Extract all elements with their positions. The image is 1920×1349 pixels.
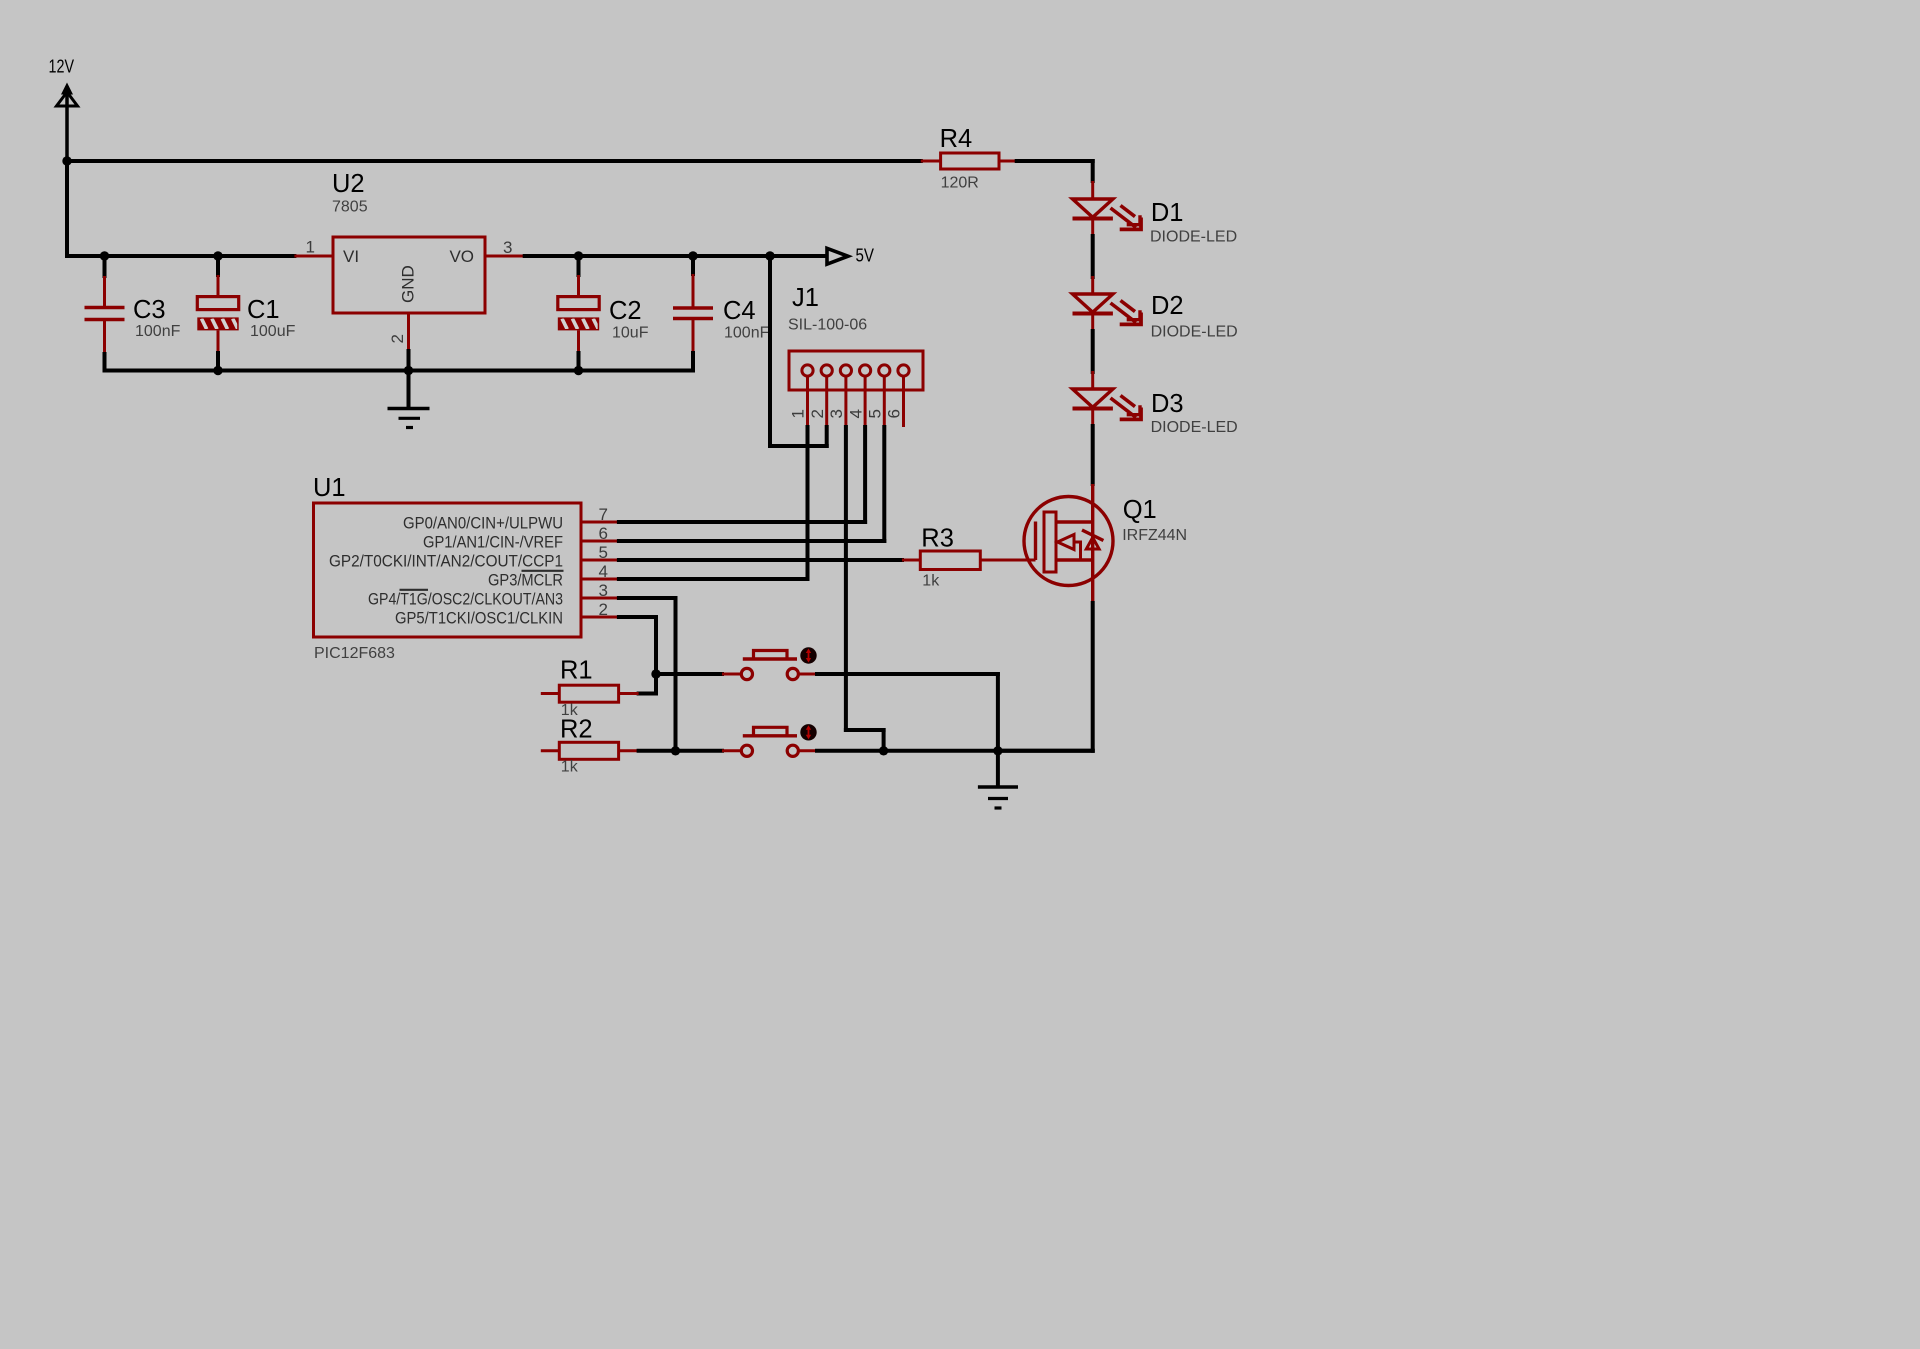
- U2 pin name VI: [343, 247, 359, 266]
- U2 pin number 3: [503, 238, 512, 257]
- label R3: [921, 525, 954, 553]
- resistor R3: [902, 551, 1036, 570]
- wire J1 pin5 to GP1: [882, 427, 886, 541]
- svg-text:GP3/MCLR: GP3/MCLR: [488, 571, 563, 589]
- svg-text:6: 6: [885, 409, 904, 418]
- diode-led D2: [1073, 276, 1142, 331]
- overline MCLR: [522, 570, 564, 572]
- svg-text:U2: U2: [332, 170, 365, 198]
- svg-text:100nF: 100nF: [724, 325, 770, 342]
- diode-led D1: [1073, 181, 1142, 236]
- label U1: [313, 474, 346, 502]
- power flag 12V symbol: [57, 83, 78, 162]
- svg-text:GP1/AN1/CIN-/VREF: GP1/AN1/CIN-/VREF: [423, 533, 563, 551]
- label U2: [332, 170, 365, 198]
- junction C3 top: [100, 251, 109, 260]
- U2 pin 3 stub: [485, 255, 525, 258]
- pushbutton SW2: [741, 724, 816, 756]
- svg-text:5: 5: [866, 409, 885, 418]
- label D3: [1151, 390, 1184, 418]
- wire GP0 to J1 pin4: [619, 520, 865, 524]
- U2 pin name GND: [399, 265, 418, 303]
- ic U1 body: [314, 503, 582, 637]
- transistor Q1 IRFZ44N: [1024, 484, 1113, 603]
- svg-text:Q1: Q1: [1123, 496, 1157, 524]
- J1 pin number 1: [789, 409, 808, 418]
- capacitor C2 (electrolytic): [558, 256, 599, 371]
- J1 pin number 5: [866, 409, 885, 418]
- label R1: [560, 657, 593, 685]
- U1 pin 2 stub: [581, 616, 619, 619]
- wire button2 to ground bus: [798, 749, 1092, 752]
- value PIC12F683: [314, 645, 395, 662]
- wire GP5 down: [619, 617, 656, 694]
- svg-text:GP0/AN0/CIN+/ULPWU: GP0/AN0/CIN+/ULPWU: [403, 514, 563, 532]
- svg-text:DIODE-LED: DIODE-LED: [1151, 419, 1238, 436]
- wire ground bus: [105, 369, 694, 373]
- value DIODE-LED D3: [1151, 419, 1238, 436]
- diode-led D3: [1073, 371, 1142, 426]
- svg-text:1k: 1k: [561, 759, 579, 776]
- resistor R1: [541, 685, 639, 702]
- svg-text:100uF: 100uF: [250, 323, 296, 340]
- svg-text:DIODE-LED: DIODE-LED: [1150, 229, 1237, 246]
- label R4: [940, 125, 973, 153]
- svg-text:C2: C2: [609, 297, 642, 325]
- J1 pin 1 circle: [802, 365, 813, 376]
- U1 pin 5 stub: [581, 559, 619, 562]
- svg-text:GND: GND: [399, 265, 418, 303]
- junction 5V tap: [765, 251, 774, 260]
- U2 pin number 2: [388, 334, 407, 343]
- wire J1 pin4 to GP0: [863, 427, 867, 522]
- J1 pin 3 circle: [840, 365, 851, 376]
- J1 pin 5 circle: [879, 365, 890, 376]
- value 1k R2: [561, 759, 579, 776]
- capacitor C4: [673, 256, 713, 371]
- label D2: [1151, 292, 1184, 320]
- label C2: [609, 297, 642, 325]
- label R2: [560, 716, 593, 744]
- J1 pin number 4: [846, 409, 865, 418]
- svg-text:R2: R2: [560, 716, 593, 744]
- svg-text:R3: R3: [921, 525, 954, 553]
- junction C2 bottom: [574, 366, 583, 375]
- svg-text:4: 4: [846, 409, 865, 418]
- svg-text:2: 2: [808, 409, 827, 418]
- U1 pin 4 stub: [581, 578, 619, 581]
- U1 pin name row 6: [395, 609, 563, 627]
- wire VO rail: [525, 254, 826, 258]
- svg-text:12V: 12V: [49, 57, 75, 77]
- svg-text:C3: C3: [133, 296, 166, 324]
- svg-text:PIC12F683: PIC12F683: [314, 645, 395, 662]
- wire 5V to J1 pin2: [770, 256, 827, 446]
- power arrow 5V: [827, 248, 848, 264]
- svg-text:D3: D3: [1151, 390, 1184, 418]
- label D1: [1151, 199, 1184, 227]
- label Q1: [1123, 496, 1157, 524]
- svg-text:VI: VI: [343, 247, 359, 266]
- resistor R4: [921, 153, 1017, 169]
- junction C2 top: [574, 251, 583, 260]
- svg-text:7805: 7805: [332, 199, 368, 216]
- J1 pin 6 stub: [902, 376, 905, 427]
- junction U2 gnd: [404, 366, 413, 375]
- connector J1 body: [789, 351, 923, 390]
- resistor R2: [541, 742, 639, 759]
- capacitor C1 (electrolytic): [197, 256, 238, 371]
- svg-text:R1: R1: [560, 657, 593, 685]
- regulator U2 body: [333, 237, 485, 313]
- U1 pin name GP4 row: [368, 590, 563, 608]
- capacitor C3: [85, 256, 125, 371]
- svg-text:120R: 120R: [941, 175, 979, 192]
- junction C4 top: [688, 251, 697, 260]
- U1 pin name row 2: [423, 533, 563, 551]
- wire junction to button1: [656, 672, 741, 676]
- value 120R: [941, 175, 979, 192]
- svg-text:3: 3: [503, 238, 512, 257]
- wire GP1 to J1 pin5: [619, 539, 884, 543]
- wire GP4 down: [619, 598, 676, 751]
- svg-text:10uF: 10uF: [612, 325, 649, 342]
- svg-text:2: 2: [599, 600, 608, 619]
- pushbutton SW1: [741, 647, 816, 679]
- svg-text:C4: C4: [723, 297, 756, 325]
- value 10uF: [612, 325, 649, 342]
- value 100nF C3: [135, 323, 181, 340]
- label C1: [247, 296, 280, 324]
- J1 pin 2 circle: [821, 365, 832, 376]
- svg-text:3: 3: [599, 581, 608, 600]
- value 1k R3: [922, 573, 940, 590]
- svg-text:D2: D2: [1151, 292, 1184, 320]
- wire D1-D2: [1091, 236, 1095, 277]
- wire R4 to LED chain: [1017, 161, 1093, 181]
- junction C1 top: [213, 251, 222, 260]
- svg-text:GP5/T1CKI/OSC1/CLKIN: GP5/T1CKI/OSC1/CLKIN: [395, 609, 563, 627]
- value 7805: [332, 199, 368, 216]
- svg-text:6: 6: [599, 524, 608, 543]
- svg-text:C1: C1: [247, 296, 280, 324]
- U1 pin name row 1: [403, 514, 563, 532]
- wire J1 pin3 down: [846, 427, 884, 751]
- U1 pin 7 stub: [581, 521, 619, 524]
- U1 pin number 7: [599, 505, 608, 524]
- wire button1 to bus: [798, 674, 998, 751]
- U1 pin name GP3/MCLR: [488, 571, 563, 589]
- wire GP3 to J1 pin1: [619, 577, 808, 581]
- value DIODE-LED D2: [1151, 324, 1238, 341]
- ground symbol bottom: [978, 751, 1018, 808]
- ground symbol U2: [388, 371, 430, 428]
- value SIL-100-06: [788, 317, 867, 334]
- value DIODE-LED D1: [1150, 229, 1237, 246]
- U1 pin number 4: [599, 562, 608, 581]
- U2 pin 1 stub: [294, 255, 333, 258]
- svg-text:J1: J1: [792, 284, 819, 312]
- svg-text:VO: VO: [449, 247, 474, 266]
- svg-text:2: 2: [388, 334, 407, 343]
- svg-text:DIODE-LED: DIODE-LED: [1151, 324, 1238, 341]
- svg-text:1k: 1k: [922, 573, 940, 590]
- net label 12V: [49, 57, 75, 77]
- label C3: [133, 296, 166, 324]
- value 100nF C4: [724, 325, 770, 342]
- U1 pin number 6: [599, 524, 608, 543]
- value 1k R1: [561, 702, 579, 719]
- J1 pin number 2: [808, 409, 827, 418]
- U1 pin name row 3: [329, 552, 563, 570]
- J1 pin number 3: [827, 409, 846, 418]
- svg-text:1: 1: [789, 409, 808, 418]
- junction R1/button1: [651, 669, 660, 678]
- value IRFZ44N: [1122, 527, 1187, 544]
- J1 pin 4 stub: [864, 376, 867, 427]
- junction J1pin3/bus: [879, 746, 888, 755]
- U2 pin 2 stub GND: [407, 313, 410, 371]
- wire J1 pin1 to GP3: [806, 427, 810, 579]
- wire R2 to button2: [639, 749, 742, 753]
- value 100uF: [250, 323, 296, 340]
- U1 pin number 3: [599, 581, 608, 600]
- svg-text:5: 5: [599, 543, 608, 562]
- U2 pin name VO: [449, 247, 474, 266]
- svg-text:U1: U1: [313, 474, 346, 502]
- label J1: [792, 284, 819, 312]
- J1 pin 3 stub: [844, 376, 847, 427]
- junction GP4/R2: [671, 746, 680, 755]
- junction C1 bottom: [213, 366, 222, 375]
- svg-text:100nF: 100nF: [135, 323, 181, 340]
- J1 pin 5 stub: [883, 376, 886, 427]
- wire D3 to Q1 drain: [1091, 426, 1095, 484]
- U2 pin number 1: [306, 238, 315, 257]
- wire 12V vertical to VI: [67, 161, 294, 256]
- J1 pin 4 circle: [860, 365, 871, 376]
- svg-text:4: 4: [599, 562, 608, 581]
- J1 pin 2 stub: [825, 376, 828, 427]
- svg-text:5V: 5V: [856, 246, 875, 266]
- svg-text:SIL-100-06: SIL-100-06: [788, 317, 867, 334]
- overline T1G: [400, 589, 429, 591]
- label C4: [723, 297, 756, 325]
- svg-text:IRFZ44N: IRFZ44N: [1122, 527, 1187, 544]
- J1 pin 1 stub: [806, 376, 809, 427]
- svg-text:D1: D1: [1151, 199, 1184, 227]
- svg-text:3: 3: [827, 409, 846, 418]
- svg-text:R4: R4: [940, 125, 973, 153]
- J1 pin 6 circle: [898, 365, 909, 376]
- wire 12V rail top: [67, 159, 921, 163]
- wire D2-D3: [1091, 331, 1095, 372]
- U1 pin number 2: [599, 600, 608, 619]
- junction ground/bus: [993, 746, 1002, 755]
- U1 pin 3 stub: [581, 597, 619, 600]
- J1 pin number 6: [885, 409, 904, 418]
- svg-text:1: 1: [306, 238, 315, 257]
- junction 12V node: [62, 156, 71, 165]
- wire GP2 to R3: [619, 558, 902, 562]
- U1 pin 6 stub: [581, 540, 619, 543]
- U1 pin number 5: [599, 543, 608, 562]
- svg-text:GP2/T0CKI/INT/AN2/COUT/CCP1: GP2/T0CKI/INT/AN2/COUT/CCP1: [329, 552, 563, 570]
- net label 5V: [856, 246, 875, 266]
- wire GP5 junction to R1: [639, 674, 656, 694]
- svg-text:GP4/T1G/OSC2/CLKOUT/AN3: GP4/T1G/OSC2/CLKOUT/AN3: [368, 590, 563, 608]
- svg-text:7: 7: [599, 505, 608, 524]
- wire Q1 source: [998, 603, 1093, 751]
